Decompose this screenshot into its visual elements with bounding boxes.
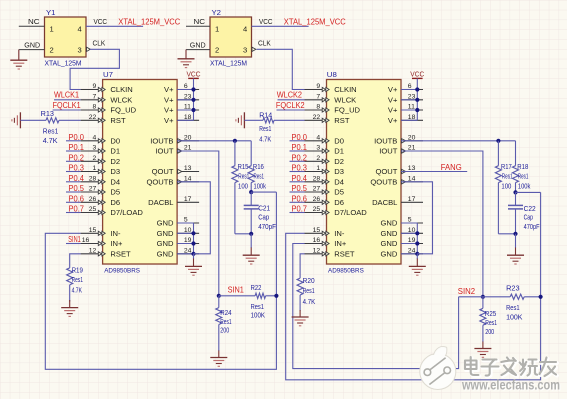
U7 pin 23 V+: [164, 93, 199, 104]
ground below U7 GND pins: [185, 254, 202, 275]
svg-text:4.7K: 4.7K: [303, 298, 316, 306]
junction node SIN1: [217, 294, 221, 298]
svg-text:15: 15: [89, 227, 97, 234]
junction dots on U7 VCC bus: [191, 87, 195, 112]
svg-text:U8: U8: [327, 70, 337, 79]
U8 pin 28 D4: [305, 175, 345, 186]
U7 pin 17 DACBL: [148, 196, 199, 207]
svg-text:3: 3: [93, 145, 97, 152]
svg-text:D5: D5: [334, 188, 344, 197]
svg-text:GND: GND: [190, 40, 206, 49]
svg-text:V+: V+: [388, 106, 398, 115]
wire Y2 GND: [186, 49, 210, 51]
svg-text:200: 200: [220, 327, 229, 335]
svg-text:100k: 100k: [518, 183, 531, 191]
svg-text:16: 16: [313, 237, 321, 244]
U8 pin 12 RSET: [305, 247, 355, 258]
U7 pin 28 D4: [81, 175, 121, 186]
svg-text:12: 12: [313, 247, 321, 254]
net label P0.5 (U8) and wire: [290, 183, 308, 193]
net label P0.1 (U7) and wire: [66, 142, 84, 152]
svg-text:AD9850BRS: AD9850BRS: [104, 267, 140, 274]
wire VCC bus U8 V+ pins: [401, 78, 417, 120]
resistor R20: [297, 278, 303, 311]
svg-text:CLKIN: CLKIN: [334, 85, 356, 94]
svg-text:QOUT: QOUT: [375, 167, 397, 176]
U8 pin 5 GND: [381, 217, 423, 228]
svg-text:RST: RST: [110, 116, 126, 125]
wire Y2 NC: [186, 25, 210, 27]
U8 pin 24 GND: [381, 247, 423, 258]
U7 pin 25 D7/LOAD: [81, 206, 144, 217]
junction node at R15 top: [233, 139, 237, 143]
Y1 CLK pin clock arrow: [87, 47, 91, 51]
svg-text:IOUTB: IOUTB: [374, 137, 397, 146]
U8 pin 6 V+: [388, 83, 423, 94]
wire R15 bottom joins C21 bottom: [235, 233, 251, 235]
svg-text:100K: 100K: [251, 312, 266, 320]
wire FQCLK1 to U7 pin 8: [53, 109, 81, 111]
wire GND bus U7: [177, 223, 193, 254]
U7 pin 7 WLCK: [81, 93, 133, 104]
svg-text:IN-: IN-: [334, 229, 345, 238]
svg-text:7: 7: [316, 93, 320, 100]
U8 pin 16 IN+: [305, 237, 347, 248]
wire R18 bottom to right vertical: [516, 191, 541, 193]
svg-text:VCC: VCC: [410, 70, 424, 79]
wire U8 QOUTB to ground bus: [401, 182, 433, 254]
svg-text:D4: D4: [110, 178, 120, 187]
svg-text:25: 25: [89, 206, 97, 213]
svg-text:4: 4: [243, 24, 247, 33]
svg-text:D6: D6: [334, 198, 344, 207]
svg-text:FQCLK2: FQCLK2: [276, 100, 305, 110]
op-amp U8 AD9850BRS body: [327, 80, 402, 265]
U7 pin 6 V+: [164, 83, 199, 94]
svg-text:Cap: Cap: [258, 214, 269, 222]
svg-text:100K: 100K: [506, 314, 523, 322]
wire R17 bottom joins C22 bottom: [498, 233, 515, 235]
U8 pin 10 GND: [381, 227, 423, 238]
net label P0.0 (U7) and wire: [66, 132, 84, 142]
svg-text:V+: V+: [164, 116, 174, 125]
net label P0.2 (U7) and wire: [66, 152, 84, 162]
svg-text:R19: R19: [72, 267, 83, 275]
net label P0.3 (U7) and wire: [66, 163, 84, 173]
svg-text:28: 28: [313, 175, 321, 182]
svg-text:16: 16: [82, 237, 90, 244]
svg-text:GND: GND: [157, 219, 174, 228]
svg-text:22: 22: [89, 114, 97, 121]
svg-text:GND: GND: [157, 239, 174, 248]
U7 pin 11 V+: [164, 104, 199, 115]
svg-text:D1: D1: [334, 147, 344, 156]
Y2 CLK pin clock arrow: [252, 47, 256, 51]
svg-text:Y1: Y1: [46, 8, 56, 17]
svg-text:2: 2: [215, 46, 219, 55]
wire Y1 VCC net: [86, 25, 143, 27]
svg-text:CLK: CLK: [93, 39, 106, 48]
wire U8 QOUT / FANG net: [401, 171, 467, 173]
watermark text www.elecfans.com: [461, 378, 561, 394]
svg-text:Res1: Res1: [220, 318, 231, 326]
net label P0.4 (U7) and wire: [66, 173, 84, 183]
svg-text:DACBL: DACBL: [148, 198, 173, 207]
svg-text:V+: V+: [388, 116, 398, 125]
wire Y1 NC: [19, 25, 45, 27]
svg-text:Res1: Res1: [43, 128, 59, 136]
svg-text:U7: U7: [103, 70, 113, 79]
U8 pin 2 D2: [305, 155, 345, 166]
svg-text:GND: GND: [381, 229, 398, 238]
svg-text:FQ_UD: FQ_UD: [110, 106, 136, 115]
resistor R16: [248, 141, 254, 192]
U8 pin 7 WLCK: [305, 93, 357, 104]
resistor R17: [495, 141, 501, 234]
svg-text:9: 9: [316, 83, 320, 90]
svg-text:26: 26: [313, 196, 321, 203]
svg-text:D5: D5: [110, 188, 120, 197]
svg-text:IOUTB: IOUTB: [150, 137, 173, 146]
svg-text:D1: D1: [110, 147, 120, 156]
svg-text:100: 100: [501, 183, 511, 191]
svg-text:D7/LOAD: D7/LOAD: [334, 208, 367, 217]
svg-text:8: 8: [316, 104, 320, 111]
svg-text:200: 200: [485, 328, 494, 336]
wire U7 RSET to R19: [70, 254, 81, 268]
junction node SIN2: [481, 295, 485, 299]
svg-text:GND: GND: [157, 229, 174, 238]
watermark text shao: [520, 360, 539, 377]
svg-text:VCC: VCC: [94, 17, 108, 26]
resistor R25: [480, 297, 486, 342]
wire Y2 CLK to U8 CLKIN: [257, 49, 305, 89]
U7 pin 1 D3: [81, 165, 121, 176]
svg-text:WLCK: WLCK: [110, 96, 132, 105]
svg-text:R24: R24: [220, 309, 231, 317]
svg-text:D4: D4: [334, 178, 344, 187]
resistor R24: [216, 296, 222, 351]
svg-text:IN-: IN-: [110, 229, 121, 238]
svg-text:R25: R25: [485, 310, 496, 318]
svg-text:VCC: VCC: [259, 17, 273, 26]
wire Y2 VCC net: [252, 25, 309, 27]
svg-text:R22: R22: [251, 284, 262, 292]
ground below C22: [507, 234, 524, 264]
svg-text:D0: D0: [110, 137, 120, 146]
svg-text:R23: R23: [506, 284, 520, 292]
svg-text:D2: D2: [334, 157, 344, 166]
U8 pin 21 IOUT: [379, 145, 423, 156]
net label P0.6 (U7) and wire: [66, 193, 84, 203]
Y2 pin labels NC GND VCC CLK: [190, 17, 273, 50]
junction dots on U8 GND bus: [415, 231, 419, 256]
op-amp U7 AD9850BRS body: [103, 80, 178, 265]
net label P0.4 (U8) and wire: [290, 173, 308, 183]
svg-text:Res1: Res1: [485, 319, 497, 327]
svg-text:1: 1: [93, 165, 97, 172]
svg-text:Cap: Cap: [524, 214, 533, 222]
capacitor C22: [508, 192, 523, 233]
U7 pin 5 GND: [157, 217, 199, 228]
resistor R13: [20, 118, 80, 123]
svg-text:FANG: FANG: [441, 162, 462, 172]
svg-text:DACBL: DACBL: [372, 198, 397, 207]
svg-text:13: 13: [184, 165, 192, 172]
svg-text:17: 17: [408, 196, 416, 203]
svg-text:QOUTB: QOUTB: [146, 178, 173, 187]
wire WLCK2 to U8 pin 7: [278, 99, 305, 101]
svg-text:26: 26: [89, 196, 97, 203]
svg-text:17: 17: [184, 196, 192, 203]
resistor R22: [219, 293, 277, 298]
U8 pin 27 D5: [305, 186, 345, 197]
svg-text:25: 25: [313, 206, 321, 213]
crystal oscillator Y2 body: [210, 17, 252, 57]
svg-text:SIN1: SIN1: [228, 285, 245, 295]
svg-text:470pF: 470pF: [524, 223, 540, 231]
svg-text:V+: V+: [388, 96, 398, 105]
resistor R23: [510, 294, 540, 299]
watermark text zi: [482, 360, 500, 377]
junction node R18 bottom / C22 top: [513, 190, 517, 194]
svg-text:12: 12: [89, 247, 97, 254]
resistor R19: [67, 268, 73, 302]
svg-text:VCC: VCC: [187, 70, 201, 79]
svg-text:Res1: Res1: [259, 125, 271, 133]
svg-text:RST: RST: [334, 116, 350, 125]
net label P0.7 (U7) and wire: [66, 204, 84, 214]
U8 pin 3 D1: [305, 145, 345, 156]
net label P0.1 (U8) and wire: [290, 142, 308, 152]
svg-text:Res1: Res1: [72, 276, 83, 284]
svg-text:AD9850BRS: AD9850BRS: [328, 267, 364, 274]
net label P0.0 (U8) and wire: [290, 132, 308, 142]
U8 pin 15 IN-: [305, 227, 345, 238]
junction node at R17 top: [496, 139, 500, 143]
sideways ground at R14: [243, 112, 245, 128]
svg-text:R17: R17: [501, 163, 512, 171]
svg-text:Y2: Y2: [212, 8, 222, 17]
svg-text:D7/LOAD: D7/LOAD: [110, 208, 143, 217]
U7 pin 26 D6: [81, 196, 121, 207]
svg-text:GND: GND: [381, 239, 398, 248]
svg-text:9: 9: [93, 83, 97, 90]
svg-text:RSET: RSET: [334, 250, 355, 259]
svg-text:28: 28: [89, 175, 97, 182]
svg-text:Res1: Res1: [303, 287, 315, 295]
svg-text:V+: V+: [388, 85, 398, 94]
Y1 pin numbers 1 2 3 4: [50, 24, 82, 54]
svg-text:NC: NC: [28, 17, 40, 26]
U7 pin 20 IOUTB: [150, 134, 199, 145]
svg-text:CLKIN: CLKIN: [110, 85, 132, 94]
svg-text:27: 27: [313, 186, 321, 193]
ground below C21: [243, 234, 260, 264]
net label P0.3 (U8) and wire: [290, 163, 308, 173]
svg-text:4.7K: 4.7K: [259, 135, 271, 143]
svg-text:WLCK2: WLCK2: [277, 90, 303, 100]
ground below U8 GND pins: [409, 254, 426, 275]
svg-text:WLCK1: WLCK1: [54, 90, 79, 100]
junction node R23 right: [539, 295, 543, 299]
svg-text:SIN1: SIN1: [68, 235, 81, 244]
svg-text:1: 1: [50, 24, 54, 33]
U7 pin 10 GND: [157, 227, 199, 238]
svg-text:100: 100: [238, 183, 248, 191]
Y1 pin labels NC GND VCC CLK: [24, 17, 107, 50]
U7 pin 14 QOUTB: [146, 175, 199, 186]
wire U7 IN- to R22 right node (big loop): [45, 192, 276, 369]
svg-text:V+: V+: [164, 85, 174, 94]
svg-text:D6: D6: [110, 198, 120, 207]
junction node C21 bottom: [249, 232, 253, 236]
U7 pin 24 GND: [157, 247, 199, 258]
wire SIN2 horizontal: [459, 296, 511, 298]
U8 pin 11 V+: [388, 104, 423, 115]
ground below R20: [299, 310, 301, 317]
sideways ground at R13: [19, 112, 21, 128]
svg-text:XTAL_125M_VCC: XTAL_125M_VCC: [118, 17, 180, 27]
svg-text:IOUT: IOUT: [379, 147, 398, 156]
U8 pin 25 D7/LOAD: [305, 206, 368, 217]
svg-text:4: 4: [316, 134, 320, 141]
junction node C22 bottom: [513, 232, 517, 236]
svg-text:CLK: CLK: [258, 39, 271, 48]
watermark text dian (electron): [465, 357, 480, 376]
svg-text:QOUTB: QOUTB: [370, 178, 397, 187]
svg-text:GND: GND: [381, 219, 398, 228]
svg-text:R20: R20: [303, 277, 315, 285]
net label P0.5 (U7) and wire: [66, 183, 84, 193]
ground below R19: [69, 300, 71, 308]
capacitor C21: [244, 192, 259, 234]
svg-text:Res1: Res1: [254, 172, 265, 180]
U8 pin 26 D6: [305, 196, 345, 207]
svg-text:IOUT: IOUT: [155, 147, 174, 156]
U8 pin 13 QOUT: [375, 165, 423, 176]
svg-text:3: 3: [78, 46, 82, 55]
svg-text:V+: V+: [164, 106, 174, 115]
svg-text:C21: C21: [258, 205, 270, 213]
Y2 pin numbers 1 2 3 4: [215, 24, 247, 54]
svg-text:D2: D2: [110, 157, 120, 166]
U7 pin 3 D1: [81, 145, 121, 156]
svg-text:Res1: Res1: [238, 172, 249, 180]
ground below Y2 GND pin: [185, 50, 187, 59]
svg-text:2: 2: [93, 155, 97, 162]
wire U7 IOUT down to SIN1 node: [177, 151, 219, 296]
wire U7 QOUTB to ground bus: [177, 182, 210, 254]
U7 pin 21 IOUT: [155, 145, 199, 156]
svg-text:4.7K: 4.7K: [43, 137, 58, 145]
svg-text:Res1: Res1: [502, 172, 513, 180]
svg-text:FQ_UD: FQ_UD: [334, 106, 360, 115]
svg-text:XTAL_125M: XTAL_125M: [45, 59, 82, 68]
wire Y1 CLK to U7 CLKIN: [70, 49, 119, 89]
junction dots on U7 GND bus: [191, 231, 195, 256]
svg-text:1: 1: [316, 165, 320, 172]
svg-text:D3: D3: [334, 167, 344, 176]
wire R16 bottom to SIN1 branch vertical: [251, 191, 276, 193]
U8 pin 4 D0: [305, 134, 345, 145]
watermark text fa: [501, 358, 517, 377]
svg-text:100k: 100k: [254, 183, 267, 191]
U7 pin 8 FQ_UD: [81, 104, 137, 115]
svg-text:27: 27: [89, 186, 97, 193]
svg-text:XTAL_125M_VCC: XTAL_125M_VCC: [284, 17, 346, 27]
U8 pin 19 GND: [381, 237, 423, 248]
junction dots on U8 VCC bus: [415, 87, 419, 112]
U7 pin 19 GND: [157, 237, 199, 248]
svg-text:C22: C22: [524, 205, 536, 213]
svg-text:22: 22: [313, 114, 321, 121]
svg-text:2: 2: [316, 155, 320, 162]
watermark elecfans logo disc: [420, 346, 456, 389]
U7 pin 12 RSET: [81, 247, 131, 258]
svg-text:R18: R18: [517, 163, 528, 171]
svg-text:R14: R14: [259, 111, 272, 119]
resistor R18: [513, 141, 519, 193]
U7 pin 2 D2: [81, 155, 121, 166]
svg-text:FQCLK1: FQCLK1: [53, 100, 81, 110]
svg-text:IN+: IN+: [110, 239, 123, 248]
ground below R24: [218, 351, 220, 358]
wire U8 IN- to R23 right node (big loop): [286, 192, 541, 379]
wire VCC bus U7 V+ pins: [177, 78, 193, 120]
svg-text:Res1: Res1: [518, 172, 529, 180]
svg-text:XTAL_125M: XTAL_125M: [210, 59, 247, 68]
resistor R14: [244, 118, 304, 123]
svg-text:3: 3: [243, 46, 247, 55]
watermark text you (friend): [540, 358, 558, 378]
svg-text:Res1: Res1: [251, 303, 264, 311]
wire U8 RSET to R20: [300, 254, 305, 278]
ground below Y1 GND pin: [18, 50, 20, 61]
U7 pin 15 IN-: [81, 227, 121, 238]
svg-text:Res1: Res1: [506, 304, 520, 312]
svg-text:GND: GND: [381, 250, 398, 259]
svg-text:2: 2: [50, 46, 54, 55]
svg-text:SIN2: SIN2: [458, 286, 476, 296]
U8 pin 17 DACBL: [372, 196, 423, 207]
wire SIN1 stub at U7 pin 16: [66, 243, 81, 245]
junction node R22 right: [274, 294, 278, 298]
svg-text:V+: V+: [164, 96, 174, 105]
U8 pin 22 RST: [305, 114, 350, 125]
U8 pin 18 V+: [388, 114, 423, 125]
wire GND bus U8: [401, 223, 417, 254]
U8 pin 1 D3: [305, 165, 345, 176]
svg-text:R16: R16: [253, 163, 264, 171]
wire WLCK1 to U7 pin 7: [54, 99, 81, 101]
svg-text:8: 8: [93, 104, 97, 111]
svg-text:RSET: RSET: [110, 250, 131, 259]
wire Y1 GND: [19, 49, 45, 51]
svg-text:R15: R15: [238, 163, 249, 171]
wire U8 IOUT down to SIN2 node: [401, 151, 483, 297]
svg-text:IN+: IN+: [334, 239, 347, 248]
svg-text:WLCK: WLCK: [334, 96, 356, 105]
svg-text:D3: D3: [110, 167, 120, 176]
svg-text:www.elecfans.com: www.elecfans.com: [461, 378, 560, 393]
U7 pin 16 IN+: [81, 237, 123, 248]
svg-text:GND: GND: [24, 40, 40, 49]
U8 pin 9 CLKIN: [305, 83, 357, 94]
U7 pin 4 D0: [81, 134, 121, 145]
U8 pin 8 FQ_UD: [305, 104, 361, 115]
svg-text:3: 3: [316, 145, 320, 152]
